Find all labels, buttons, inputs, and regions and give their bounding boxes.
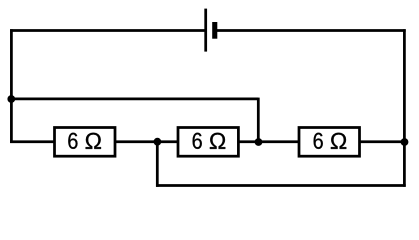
wire: bottom horizontal bbox=[156, 184, 406, 187]
wire: vertical drop from middle wire to node B bbox=[257, 98, 260, 142]
battery B1 long plate (positive terminal) bbox=[204, 9, 207, 52]
wire: between R2 and R3 bbox=[238, 140, 299, 143]
wire: R3 to right vertical bbox=[360, 140, 405, 143]
resistor R2 (6 ohm) bbox=[178, 128, 238, 157]
wire: left vertical bbox=[10, 29, 13, 143]
wire: between R1 and R2 bbox=[115, 140, 178, 143]
resistor R3 (6 ohm) bbox=[299, 128, 360, 157]
wire: right vertical bbox=[403, 29, 406, 187]
node: junction dot on left vertical at middle wire bbox=[7, 95, 15, 103]
wire: vertical drop from node A to bottom wire bbox=[156, 140, 159, 187]
resistor R1 (6 ohm) bbox=[55, 128, 116, 157]
node B: junction dot between R2 and R3 bbox=[255, 138, 263, 146]
value label "6 &#937;" bbox=[314, 133, 323, 149]
value label "6 &#937;" bbox=[68, 133, 77, 149]
node C: junction dot on right vertical bbox=[401, 138, 409, 146]
wire: left lead into resistor R1 bbox=[10, 140, 54, 143]
wire: top right horizontal from battery to right corner bbox=[215, 29, 406, 32]
node A: junction dot between R1 and R2 bbox=[154, 138, 162, 146]
battery B1 short thick plate (negative terminal) bbox=[212, 22, 217, 39]
wire: middle horizontal from left node to mid drop bbox=[10, 98, 258, 101]
wire: top left horizontal from left corner to battery bbox=[10, 29, 206, 32]
value label "6 &#937;" bbox=[193, 133, 202, 149]
